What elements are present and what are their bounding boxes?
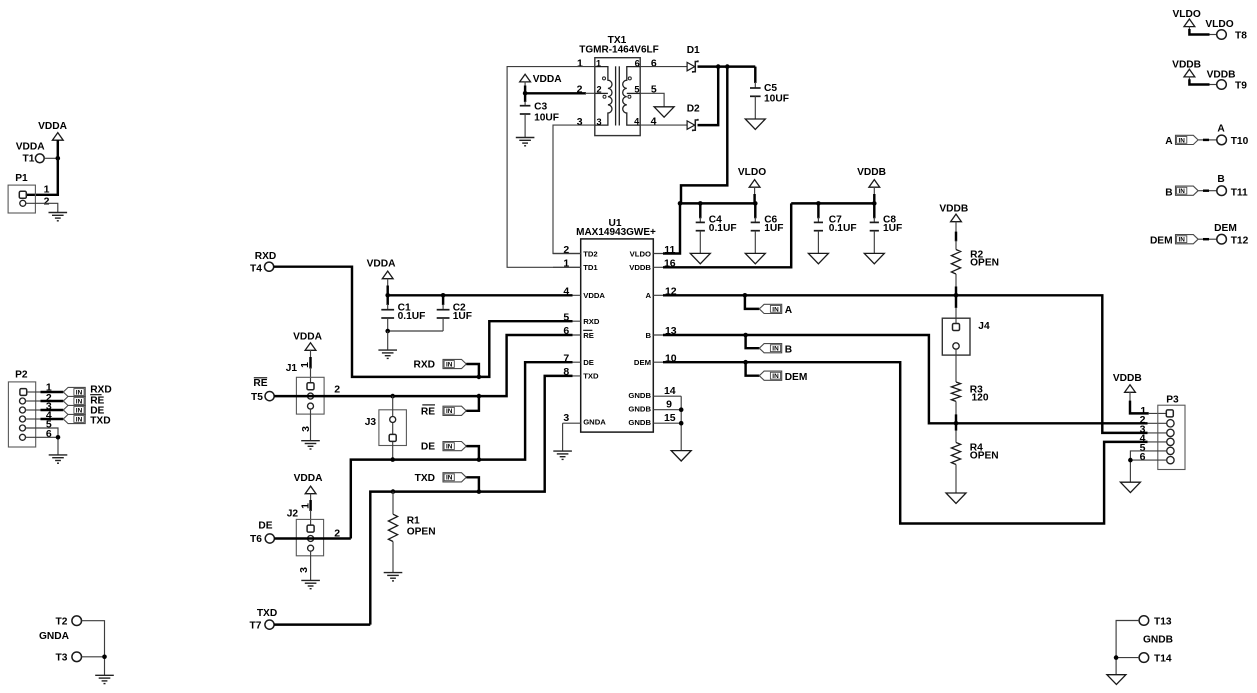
svg-text:RE: RE bbox=[583, 331, 594, 340]
capacitor C2 1UF bbox=[442, 295, 444, 305]
svg-text:1UF: 1UF bbox=[883, 223, 902, 234]
junction R1 bbox=[391, 489, 396, 494]
svg-text:MAX14943GWE+: MAX14943GWE+ bbox=[576, 227, 656, 238]
svg-text:IN: IN bbox=[1178, 137, 1185, 144]
junction J3 top bbox=[390, 394, 395, 399]
svg-text:J2: J2 bbox=[287, 508, 299, 519]
svg-text:J1: J1 bbox=[286, 363, 298, 374]
U1 pin stubs left bbox=[553, 253, 581, 255]
svg-text:9: 9 bbox=[666, 399, 672, 411]
ground GNDB (P3) bbox=[1120, 482, 1140, 492]
svg-text:RXD: RXD bbox=[583, 317, 600, 326]
net VDDB rail bbox=[791, 202, 874, 204]
wire T7 to TXD net bbox=[274, 623, 370, 625]
ground GNDA (U1) bbox=[553, 451, 572, 459]
svg-text:10UF: 10UF bbox=[534, 112, 559, 123]
svg-text:VDDB: VDDB bbox=[1172, 59, 1201, 70]
ground GNDB (R4) bbox=[946, 493, 966, 503]
svg-text:1: 1 bbox=[577, 57, 583, 69]
junction T1/VDDA bbox=[56, 156, 61, 161]
wire U1 VDDB pin 16 to rail riser bbox=[663, 203, 791, 267]
wire T13/T14 to ground bbox=[1116, 621, 1139, 675]
sheet entry tag RE (P2) bbox=[63, 396, 85, 405]
svg-text:D2: D2 bbox=[687, 104, 700, 115]
ground GNDB (TX1 pin 5) bbox=[654, 107, 674, 117]
svg-text:T5: T5 bbox=[251, 392, 263, 403]
svg-text:GNDB: GNDB bbox=[628, 418, 651, 427]
svg-text:TD2: TD2 bbox=[583, 249, 598, 258]
wire VDDA to J1 pin 1 bbox=[310, 350, 312, 358]
wire P2 pin 6 to ground bbox=[26, 437, 59, 455]
svg-text:TGMR-1464V6LF: TGMR-1464V6LF bbox=[579, 45, 658, 56]
svg-text:RXD: RXD bbox=[413, 360, 435, 371]
wire J4 to R3 bbox=[955, 349, 957, 382]
svg-text:IN: IN bbox=[772, 306, 779, 313]
svg-text:IN: IN bbox=[76, 416, 83, 423]
ground GNDB (C6) bbox=[745, 253, 765, 263]
junction DE tag bbox=[477, 457, 482, 462]
jumper J4 bbox=[942, 318, 970, 355]
test point T14 bbox=[1139, 653, 1149, 663]
wire TX1 pin 3 to U1 TD2 bbox=[553, 125, 595, 253]
svg-text:1UF: 1UF bbox=[764, 223, 783, 234]
net VDDA to U1 pin 4 bbox=[388, 294, 573, 296]
ground GNDA (J1) bbox=[301, 441, 320, 449]
svg-text:IN: IN bbox=[446, 361, 453, 368]
svg-text:VDDA: VDDA bbox=[38, 121, 68, 132]
wire U1 VLDO pin 11 riser bbox=[663, 203, 680, 253]
wire P2 pin 1 to tag RXD bbox=[27, 391, 41, 393]
capacitor C3 10UF bbox=[524, 93, 526, 102]
svg-text:T2: T2 bbox=[56, 616, 68, 627]
svg-text:IN: IN bbox=[446, 408, 453, 415]
svg-text:VDDA: VDDA bbox=[367, 259, 397, 270]
net DE route to U1 pin 7 bbox=[351, 362, 573, 538]
ground GNDB (C8) bbox=[864, 253, 884, 263]
svg-text:T11: T11 bbox=[1231, 187, 1248, 198]
svg-text:VDDA: VDDA bbox=[583, 291, 605, 300]
TX1 phase dots bbox=[603, 77, 606, 80]
junction DEM tag bbox=[743, 360, 748, 365]
svg-text:4: 4 bbox=[634, 117, 640, 127]
svg-text:1: 1 bbox=[44, 183, 50, 195]
svg-text:T9: T9 bbox=[1235, 81, 1247, 92]
svg-text:3: 3 bbox=[596, 117, 601, 127]
wire TX1 pin 1 to U1 TD1 bbox=[507, 67, 595, 268]
wire VLDO to T8 bbox=[1188, 26, 1190, 30]
svg-text:RXD: RXD bbox=[255, 251, 277, 262]
svg-text:OPEN: OPEN bbox=[407, 527, 436, 538]
svg-text:2: 2 bbox=[334, 384, 340, 396]
wire R4 to ground bbox=[955, 465, 957, 494]
sheet entry tag A bbox=[745, 295, 759, 309]
junction B tag bbox=[743, 333, 748, 338]
svg-text:A: A bbox=[785, 305, 793, 316]
wire T2/T3 to ground bbox=[82, 621, 105, 676]
wire P2 pin 4 to tag TXD bbox=[26, 418, 42, 420]
svg-text:J3: J3 bbox=[365, 417, 377, 428]
svg-text:A: A bbox=[1217, 124, 1225, 135]
svg-text:TD1: TD1 bbox=[583, 263, 598, 272]
wire P2 pin 3 to tag DE bbox=[26, 409, 42, 411]
junction C3/VDDA bbox=[523, 91, 528, 96]
svg-text:0.1UF: 0.1UF bbox=[398, 311, 426, 322]
power symbol VDDA (C3) bbox=[520, 74, 531, 82]
svg-text:IN: IN bbox=[1178, 188, 1185, 195]
wire T1 to VDDA net bbox=[44, 157, 58, 159]
junction R2/A bbox=[954, 293, 959, 298]
svg-text:T3: T3 bbox=[56, 652, 68, 663]
svg-text:VDDB: VDDB bbox=[857, 167, 886, 178]
ground GNDA (R1) bbox=[384, 573, 403, 581]
ground GNDA (J2) bbox=[301, 580, 320, 588]
ground GNDB (C5) bbox=[745, 119, 765, 129]
net B route U1 pin 13 to P3 pin 2 bbox=[663, 335, 1148, 423]
wire VDDA to TX1 pin 2 bbox=[524, 82, 526, 87]
svg-text:6: 6 bbox=[46, 428, 52, 440]
capacitor C6 1UF bbox=[754, 203, 756, 218]
svg-text:IN: IN bbox=[76, 398, 83, 405]
svg-text:A: A bbox=[1165, 136, 1173, 147]
svg-text:DEM: DEM bbox=[785, 372, 808, 383]
svg-text:GNDB: GNDB bbox=[1143, 635, 1173, 646]
wire TX1 pin 5 to GNDB bbox=[640, 93, 664, 107]
svg-text:DEM: DEM bbox=[1214, 223, 1237, 234]
test point T13 bbox=[1139, 616, 1149, 626]
wire D1 cathode to node bbox=[698, 65, 756, 67]
net TXD route to U1 pin 8 bbox=[370, 376, 572, 625]
sheet entry tag TXD (P2) bbox=[63, 414, 85, 423]
capacitor C4 0.1UF bbox=[699, 203, 701, 218]
svg-text:J4: J4 bbox=[978, 321, 990, 332]
svg-text:GNDB: GNDB bbox=[628, 404, 651, 413]
wire P1 pin 2 to ground bbox=[26, 203, 58, 212]
svg-text:6: 6 bbox=[1140, 451, 1146, 463]
svg-text:0.1UF: 0.1UF bbox=[829, 223, 857, 234]
net RXD route T4 to U1 pin 5 bbox=[274, 267, 573, 377]
svg-text:0.1UF: 0.1UF bbox=[709, 223, 737, 234]
wire J1 pin 3 to ground bbox=[310, 409, 312, 441]
svg-text:14: 14 bbox=[664, 385, 676, 397]
U1 pin stubs right bbox=[653, 253, 680, 255]
ground GNDA (P1) bbox=[49, 213, 68, 221]
ground GNDA (C3) bbox=[516, 138, 535, 146]
junction T14/GNDB bbox=[1114, 655, 1119, 660]
wire T6 to J2 pin 2 bbox=[274, 537, 350, 539]
junction P3 pin 6 bbox=[1128, 458, 1133, 463]
ground GNDB (T13/T14) bbox=[1107, 675, 1126, 685]
wire TX1 pin 4 to D2 bbox=[640, 124, 687, 126]
svg-text:P1: P1 bbox=[15, 173, 28, 184]
svg-text:TXD: TXD bbox=[257, 608, 277, 619]
svg-text:T4: T4 bbox=[250, 263, 262, 274]
junction D1/D2 node bbox=[716, 64, 721, 69]
svg-text:B: B bbox=[645, 331, 651, 340]
svg-text:T14: T14 bbox=[1154, 654, 1172, 665]
resistor R3 120 bbox=[951, 382, 960, 401]
svg-text:IN: IN bbox=[76, 407, 83, 414]
wire VDDA to P1 pin 1 bbox=[26, 140, 58, 195]
svg-text:1UF: 1UF bbox=[453, 311, 472, 322]
ground GNDA (C1/C2) bbox=[378, 350, 397, 358]
svg-text:TXD: TXD bbox=[583, 372, 599, 381]
svg-text:2: 2 bbox=[563, 244, 569, 256]
svg-text:2: 2 bbox=[596, 85, 601, 95]
svg-text:IN: IN bbox=[772, 346, 779, 353]
svg-text:3: 3 bbox=[577, 116, 583, 128]
svg-text:4: 4 bbox=[651, 116, 657, 128]
wire U1 GNDA pin 3 to ground bbox=[562, 423, 564, 451]
svg-text:GNDB: GNDB bbox=[628, 391, 651, 400]
wire U1 GNDB pins 14/9/15 common bbox=[680, 396, 682, 450]
svg-text:DE: DE bbox=[421, 442, 435, 453]
junction TXD tag bbox=[477, 489, 482, 494]
svg-text:T13: T13 bbox=[1154, 616, 1172, 627]
svg-text:A: A bbox=[645, 291, 651, 300]
svg-text:1: 1 bbox=[596, 58, 601, 68]
junction node to VLDO feed bbox=[725, 64, 730, 69]
wire R3 to B net bbox=[955, 401, 957, 415]
svg-text:VDDA: VDDA bbox=[294, 473, 324, 484]
svg-text:VDDA: VDDA bbox=[16, 142, 46, 153]
ground GNDB (C4) bbox=[690, 253, 710, 263]
wire VDDB to R2 bbox=[955, 221, 957, 232]
svg-text:6: 6 bbox=[651, 57, 657, 69]
wire VDDB to T9 bbox=[1188, 77, 1190, 80]
svg-text:TXD: TXD bbox=[415, 473, 435, 484]
svg-text:RXD: RXD bbox=[90, 384, 112, 395]
svg-text:T6: T6 bbox=[250, 534, 262, 545]
svg-text:C3: C3 bbox=[534, 102, 547, 113]
svg-text:3: 3 bbox=[563, 412, 569, 424]
svg-text:5: 5 bbox=[634, 85, 639, 95]
svg-text:1: 1 bbox=[300, 503, 312, 509]
svg-text:TXD: TXD bbox=[90, 416, 110, 427]
svg-text:VLDO: VLDO bbox=[630, 249, 651, 258]
svg-text:VDDB: VDDB bbox=[629, 263, 651, 272]
svg-text:OPEN: OPEN bbox=[970, 258, 999, 269]
svg-text:IN: IN bbox=[76, 389, 83, 396]
svg-text:DEM: DEM bbox=[634, 358, 651, 367]
svg-text:120: 120 bbox=[972, 393, 989, 404]
wire P2 pin 2 to tag RE bbox=[26, 400, 42, 402]
svg-text:GNDA: GNDA bbox=[39, 631, 70, 642]
svg-text:T1: T1 bbox=[23, 153, 35, 164]
junction R3/B bbox=[954, 421, 959, 426]
svg-text:10UF: 10UF bbox=[764, 93, 789, 104]
junction T3/GNDA bbox=[102, 655, 107, 660]
svg-text:P3: P3 bbox=[1166, 394, 1179, 405]
net VLDO rail bbox=[680, 202, 755, 204]
wire node down to VLDO rail bbox=[681, 67, 727, 204]
ground GNDA (T2/T3) bbox=[95, 675, 114, 683]
ground GNDB (U1) bbox=[671, 451, 691, 461]
svg-text:3: 3 bbox=[300, 426, 312, 432]
capacitor C5 10UF bbox=[754, 67, 756, 83]
svg-text:1: 1 bbox=[299, 362, 311, 368]
wire VDDB to P3 pin 1 bbox=[1129, 392, 1131, 401]
wire C1/C2 common bottom bbox=[388, 330, 443, 332]
svg-text:VDDA: VDDA bbox=[533, 74, 563, 85]
svg-text:RE: RE bbox=[253, 378, 267, 389]
wire TX1 pin 6 to D1 bbox=[640, 66, 687, 68]
ground GNDA (P2) bbox=[49, 455, 68, 463]
svg-text:3: 3 bbox=[298, 567, 310, 573]
svg-text:VDDB: VDDB bbox=[939, 204, 968, 215]
svg-text:B: B bbox=[1165, 187, 1172, 198]
wire P2 pin 5 to pin 6 node bbox=[26, 428, 59, 437]
svg-text:B: B bbox=[785, 344, 792, 355]
svg-text:DE: DE bbox=[583, 358, 594, 367]
svg-text:T8: T8 bbox=[1235, 31, 1247, 42]
svg-text:2: 2 bbox=[44, 195, 50, 207]
wire D2 cathode up to node bbox=[698, 67, 719, 126]
wire P3 pins 5/6 to ground bbox=[1130, 451, 1166, 460]
junction RXD tag bbox=[477, 375, 482, 380]
sheet entry tag RXD (P2) bbox=[63, 387, 85, 396]
svg-text:OPEN: OPEN bbox=[970, 450, 999, 461]
svg-text:15: 15 bbox=[664, 412, 676, 424]
svg-text:T7: T7 bbox=[250, 621, 262, 632]
svg-text:DE: DE bbox=[258, 521, 272, 532]
svg-text:D1: D1 bbox=[687, 45, 700, 56]
svg-text:VLDO: VLDO bbox=[1205, 19, 1233, 30]
svg-text:6: 6 bbox=[635, 58, 640, 68]
svg-text:IN: IN bbox=[446, 475, 453, 482]
capacitor C8 1UF bbox=[873, 203, 875, 218]
junction A tag bbox=[743, 293, 748, 298]
svg-text:P2: P2 bbox=[15, 369, 28, 380]
net DEM route U1 pin 10 to P3 pin 4 bbox=[663, 362, 1148, 523]
capacitor C1 0.1UF bbox=[386, 295, 388, 305]
sheet entry tag B bbox=[746, 335, 760, 348]
svg-text:GNDA: GNDA bbox=[583, 417, 606, 426]
svg-text:VLDO: VLDO bbox=[1172, 9, 1200, 20]
net RE route T5 to U1 pin 6 bbox=[274, 335, 572, 396]
svg-text:B: B bbox=[1217, 174, 1224, 185]
wire J2 pin 3 to ground bbox=[310, 551, 312, 580]
wire R2 to A net bbox=[955, 274, 957, 288]
sheet entry tag DEM bbox=[746, 362, 760, 376]
svg-text:VLDO: VLDO bbox=[738, 167, 766, 178]
svg-text:IN: IN bbox=[772, 373, 779, 380]
svg-text:T10: T10 bbox=[1231, 136, 1249, 147]
resistor R1 OPEN bbox=[392, 492, 394, 515]
svg-text:IN: IN bbox=[1178, 237, 1185, 244]
net A route U1 pin 12 to P3 pin 3 bbox=[663, 295, 1148, 433]
sheet entry tag DE (P2) bbox=[63, 405, 85, 414]
svg-text:IN: IN bbox=[446, 444, 453, 451]
capacitor C7 0.1UF bbox=[817, 203, 819, 218]
svg-text:DEM: DEM bbox=[1150, 236, 1173, 247]
svg-text:T12: T12 bbox=[1231, 236, 1249, 247]
junction RE tag bbox=[477, 394, 482, 399]
svg-text:R1: R1 bbox=[407, 515, 420, 526]
junction P2 pin 6 bbox=[56, 435, 61, 440]
resistor R4 OPEN bbox=[955, 431, 957, 443]
wire VDDA to J2 pin 1 bbox=[310, 493, 312, 501]
resistor R2 OPEN bbox=[951, 250, 960, 274]
svg-text:RE: RE bbox=[421, 406, 435, 417]
svg-text:VDDB: VDDB bbox=[1113, 373, 1142, 384]
junction J3 bottom bbox=[390, 457, 395, 462]
ground GNDB (C7) bbox=[808, 253, 828, 263]
svg-text:VDDA: VDDA bbox=[293, 332, 323, 343]
